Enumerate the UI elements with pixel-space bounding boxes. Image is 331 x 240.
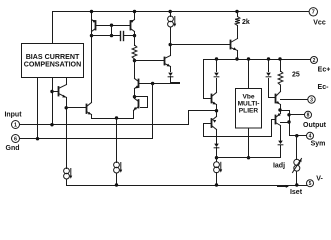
svg-text:Input: Input <box>4 112 22 119</box>
wire QA emitter to box <box>66 79 68 85</box>
wire QB collector column x91.5 <box>90 10 93 103</box>
pin 8 Output <box>290 111 327 129</box>
wire Vcc top rail <box>53 12 310 44</box>
transistor Q8 <box>231 39 238 51</box>
wire bottom node <box>217 157 281 159</box>
svg-text:Vcc: Vcc <box>313 20 326 27</box>
wire QA collector column to current source <box>65 98 68 169</box>
wire gnd line <box>20 138 153 140</box>
svg-text:3: 3 <box>310 97 313 103</box>
wire QA collector to QB base <box>67 107 87 109</box>
transistor QA input follower <box>58 87 60 96</box>
wire Ec+ bus <box>204 57 311 60</box>
wire Q5 base reference column <box>152 84 154 139</box>
label Iset with arrow <box>278 185 303 196</box>
wire QA base column <box>50 79 58 127</box>
transistor Q9 <box>165 56 171 67</box>
svg-text:2k: 2k <box>242 19 250 26</box>
wire QB emitter corner <box>92 115 134 120</box>
wire upper driver base leg <box>204 60 212 99</box>
transistor QB left diff <box>86 105 88 114</box>
wire V- bottom rail <box>67 185 307 187</box>
svg-text:Gnd: Gnd <box>6 145 20 152</box>
pin 3 Ec- <box>281 84 330 104</box>
resistor R1 mirror load <box>132 10 137 63</box>
pin 2 Ec+ <box>311 57 331 74</box>
svg-text:Output: Output <box>303 122 327 129</box>
diode D4 <box>214 130 219 160</box>
current source I4 <box>214 158 223 187</box>
wire Q5 collector to Q4 <box>133 89 136 99</box>
wire Q9 collector up <box>169 43 172 56</box>
svg-text:Vbe: Vbe <box>242 93 254 100</box>
current source I1 (QA tail) <box>64 168 73 186</box>
transistor Q1 mirror left <box>92 20 96 36</box>
wire Vbe box bottom feed <box>247 129 250 160</box>
wire Q9 base <box>135 60 165 62</box>
pin 1 Input <box>4 112 22 129</box>
svg-text:MULTI-: MULTI- <box>238 101 260 108</box>
diode D1 <box>168 67 179 84</box>
current source I2 diff tail <box>114 162 123 187</box>
diode D3 <box>266 60 275 98</box>
svg-text:5: 5 <box>309 181 312 187</box>
bias current compensation block <box>22 44 84 78</box>
svg-text:Iadj: Iadj <box>273 163 285 170</box>
transistor QB diagonals <box>87 103 92 115</box>
capacitor C1 <box>92 32 137 41</box>
transistor Q2 mirror right <box>131 20 135 36</box>
transistor Q11 lower driver <box>212 117 217 130</box>
potentiometer Iadj <box>293 136 302 187</box>
transistor Q13 lower output <box>276 113 281 126</box>
svg-text:Iset: Iset <box>290 189 303 196</box>
transistor QA diagonals <box>59 85 67 98</box>
svg-text:8: 8 <box>307 113 310 119</box>
svg-text:COMPENSATION: COMPENSATION <box>24 61 81 69</box>
svg-text:BIAS CURRENT: BIAS CURRENT <box>26 53 80 61</box>
Vbe multiplier block <box>236 89 262 129</box>
pin 5 V- <box>307 176 324 188</box>
wire Vbe box top feed <box>248 60 250 89</box>
wire Q4 emitter to tail <box>133 111 135 119</box>
wire mirror bases <box>96 24 131 38</box>
svg-text:PLIER: PLIER <box>239 108 259 115</box>
current source I3 top <box>168 10 177 45</box>
transistor Q10 upper driver <box>212 93 217 105</box>
svg-text:7: 7 <box>312 10 315 16</box>
svg-text:Ec+: Ec+ <box>318 67 331 74</box>
wire lower driver base leg <box>204 124 212 137</box>
svg-text:Sym: Sym <box>311 141 326 148</box>
wire output jog <box>281 111 291 136</box>
svg-text:25: 25 <box>292 72 300 79</box>
wire Q8 emitter to bus <box>235 51 238 61</box>
wire output node column <box>278 105 281 114</box>
svg-text:4: 4 <box>309 134 312 140</box>
svg-text:2: 2 <box>313 58 316 64</box>
diode D5 <box>278 126 283 158</box>
wire Q8 base <box>171 44 231 46</box>
transistor Q4 right diff diode-connected <box>134 97 139 111</box>
pin 7 Vcc <box>309 8 326 27</box>
svg-text:V-: V- <box>316 176 323 183</box>
wire lower output base leg <box>272 120 276 137</box>
wire lower bus <box>204 136 272 138</box>
wire input line to output node <box>20 111 217 125</box>
wire R1 to Q5 <box>134 61 136 79</box>
wire Q4 base loop <box>135 97 148 108</box>
wire Q5 base <box>139 82 180 85</box>
svg-text:6: 6 <box>14 136 17 142</box>
pin 6 Gnd <box>6 135 20 153</box>
svg-text:1: 1 <box>14 122 17 128</box>
resistor R2 2k <box>235 10 240 39</box>
wire driver mid node <box>215 105 218 117</box>
resistor R3 25 ohm <box>278 60 283 92</box>
diode D2 <box>214 60 219 93</box>
svg-text:Ec-: Ec- <box>318 84 330 91</box>
transistor Q5 <box>135 79 139 89</box>
wire diff tail column <box>116 119 118 163</box>
wire bias box stub to gnd <box>36 79 39 141</box>
transistor Q12 upper output <box>276 92 281 105</box>
pin 4 Sym <box>290 132 326 147</box>
